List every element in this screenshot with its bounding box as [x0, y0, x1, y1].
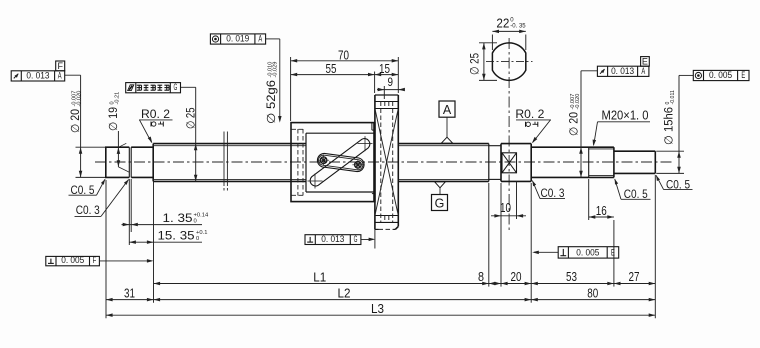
svg-text:8: 8 [478, 269, 484, 284]
svg-text:1. 35: 1. 35 [163, 211, 193, 225]
svg-text:-0.21: -0.21 [115, 92, 121, 105]
svg-text:M20×1. 0: M20×1. 0 [602, 109, 649, 123]
svg-text:0: 0 [196, 236, 199, 242]
svg-text:15: 15 [379, 61, 390, 76]
svg-text:15. 35: 15. 35 [158, 228, 195, 242]
svg-text:R0. 2: R0. 2 [141, 107, 170, 121]
svg-text:-0. 35: -0. 35 [510, 24, 526, 30]
svg-text:-0.020: -0.020 [77, 91, 83, 107]
svg-text:A: A [641, 66, 645, 76]
svg-text:E: E [642, 56, 648, 66]
svg-text:0. 005: 0. 005 [576, 248, 599, 258]
svg-text:53: 53 [566, 269, 577, 284]
svg-text:∅ 20: ∅ 20 [70, 109, 82, 133]
svg-text:L3: L3 [371, 301, 384, 316]
svg-text:∅ 19: ∅ 19 [108, 107, 120, 131]
svg-text:70: 70 [338, 47, 349, 62]
svg-text:F: F [93, 255, 97, 265]
svg-text:31: 31 [124, 285, 135, 300]
svg-text:F: F [57, 61, 63, 71]
svg-text:∅ 15h6: ∅ 15h6 [664, 107, 676, 145]
svg-text:A: A [443, 103, 452, 117]
svg-text:G: G [173, 82, 177, 92]
svg-text:80: 80 [587, 285, 598, 300]
svg-text:C0. 3: C0. 3 [541, 186, 565, 200]
svg-text:R0. 2: R0. 2 [515, 107, 544, 121]
svg-text:∅ 25: ∅ 25 [468, 53, 482, 75]
svg-text:22: 22 [496, 16, 509, 31]
svg-text:∅ 25: ∅ 25 [186, 108, 198, 130]
svg-text:20: 20 [511, 269, 522, 284]
svg-text:G: G [354, 234, 358, 244]
svg-text:-0.011: -0.011 [670, 90, 676, 104]
svg-text:16: 16 [596, 203, 607, 218]
svg-text:10: 10 [500, 200, 511, 215]
svg-text:G: G [435, 197, 445, 211]
svg-text:0. 019: 0. 019 [226, 34, 249, 44]
svg-text:0. 005: 0. 005 [61, 255, 84, 265]
svg-text:E: E [741, 70, 745, 80]
svg-text:27: 27 [629, 269, 640, 284]
svg-text:0: 0 [194, 218, 197, 224]
svg-text:0. 013: 0. 013 [26, 70, 49, 80]
svg-text:∅ 52g6: ∅ 52g6 [266, 80, 278, 124]
svg-text:55: 55 [326, 61, 337, 76]
svg-text:C0. 5: C0. 5 [71, 183, 95, 197]
svg-text:-0.029: -0.029 [273, 62, 279, 78]
svg-text:L1: L1 [313, 269, 326, 284]
svg-text:0. 005: 0. 005 [709, 70, 732, 80]
svg-text:9: 9 [388, 77, 394, 89]
svg-text:L2: L2 [338, 285, 351, 300]
svg-text:A: A [258, 34, 262, 44]
svg-text:0. 013: 0. 013 [321, 234, 344, 244]
svg-text:0. 013: 0. 013 [611, 66, 634, 76]
svg-text:-0.020: -0.020 [575, 94, 581, 110]
svg-text:A: A [58, 70, 62, 80]
svg-text:C0. 3: C0. 3 [76, 203, 100, 217]
svg-text:∅ 20: ∅ 20 [569, 112, 581, 136]
